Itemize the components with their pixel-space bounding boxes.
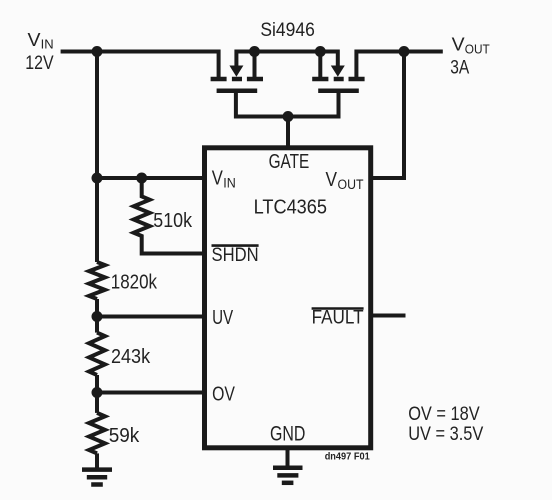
svg-text:59k: 59k [109,424,140,447]
transistor Q1 body pad [232,77,242,82]
svg-text:OUT: OUT [465,42,490,57]
op-amp U1 LTC4365 box [205,148,371,448]
svg-text:V: V [28,30,41,50]
SHDN overline [212,244,259,247]
ground (GND) bar 2 [277,473,298,478]
ground (left) bar 3 [91,482,103,487]
svg-text:OV = 18V: OV = 18V [408,403,480,425]
resistor R1 510k (with stub and SHDN wire) [134,176,204,254]
ground (left, below 59k) bar 1 [82,467,112,472]
svg-text:LTC4365: LTC4365 [254,196,327,218]
wire: VIN node to VIN pin [97,176,204,180]
svg-text:V: V [326,169,338,191]
resistor R4 59k [89,413,105,454]
node: Q2 source on rail [315,46,326,57]
svg-text:SHDN: SHDN [212,245,259,266]
wire: between 243k and OV node [95,375,99,413]
node: VIN pin tap [92,173,103,184]
transistor Q1 gate plate [217,89,258,94]
transistor Q1 body-diode arrow [229,66,243,77]
wire: between 1820k and 243k [95,299,99,333]
wire: Q2 gate stub to common gate node [288,91,339,117]
node: VOUT rail junction [399,46,410,57]
wire: top rail from VIN to Q1 drain leg [61,52,219,80]
wire: left vertical from top rail to 1820k [95,52,99,263]
svg-text:dn497 F01: dn497 F01 [325,450,370,462]
svg-text:UV = 3.5V: UV = 3.5V [408,423,483,445]
svg-text:OUT: OUT [338,177,364,192]
wire: Q2 drain leg + top rail to VOUT [356,52,442,80]
node: Q1 source on rail [249,46,260,57]
svg-text:V: V [452,35,465,55]
svg-text:3A: 3A [450,57,469,79]
node: OV tap [92,387,103,398]
wire: GND pin stub [286,448,290,468]
wire: FAULT pin stub [371,314,406,318]
FAULT overline [312,307,364,310]
svg-text:Si4946: Si4946 [260,19,314,41]
resistor R3 243k [89,333,105,375]
wire: VOUT pin to top rail [370,52,404,179]
ground (GND) bar 3 [282,481,294,486]
transistor Q1 source pad [247,77,263,82]
wire: UV node to UV pin [97,315,204,319]
wire: common gate node down to GATE pin [286,117,290,149]
resistor R2 1820k [89,262,105,299]
wire: Q1 gate stub to common gate node [236,91,288,117]
svg-text:V: V [212,168,224,190]
transistor Q2 source pad [312,77,328,82]
node: common gate [283,111,294,122]
wire: Q2 source leg [318,52,322,80]
transistor Q2 body-diode arrow [331,66,345,77]
svg-text:UV: UV [212,307,234,329]
wire: Q1 source leg [253,52,257,80]
svg-text:GND: GND [270,423,305,446]
node: UV tap [92,311,103,322]
wire: 59k bottom to ground [95,453,99,468]
transistor Q1 drain pad [211,77,227,82]
svg-text:GATE: GATE [269,150,310,173]
wire: Q1 body-diode stub + source rail to Q2 body-diode stub [236,52,337,67]
svg-text:IN: IN [41,37,54,52]
svg-text:OV: OV [212,384,235,406]
svg-text:1820k: 1820k [111,271,158,294]
svg-text:12V: 12V [25,52,53,74]
ground (below GND pin) bar 1 [273,466,303,471]
node: VIN rail junction [92,46,103,57]
svg-text:243k: 243k [111,345,151,368]
transistor Q2 body pad [334,77,344,82]
svg-text:IN: IN [223,176,236,191]
transistor Q2 drain pad [349,77,365,82]
transistor Q2 gate plate [318,89,359,94]
wire: OV node to OV pin [97,391,204,395]
node: 510k top tap [136,173,147,184]
svg-text:510k: 510k [153,209,192,232]
ground (left) bar 2 [87,475,107,480]
